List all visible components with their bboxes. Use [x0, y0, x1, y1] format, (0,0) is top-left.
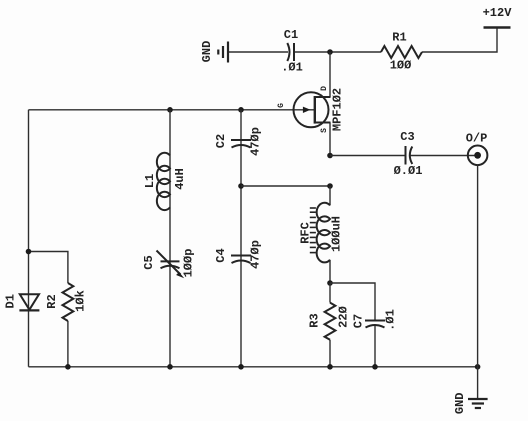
svg-text:C4: C4 — [214, 248, 228, 262]
wire RFC vertical top lead — [329, 186, 331, 205]
svg-text:R1: R1 — [392, 31, 406, 45]
svg-text:.Ø1: .Ø1 — [384, 309, 398, 331]
svg-text:22Ø: 22Ø — [337, 306, 351, 328]
node output ground junction — [475, 364, 481, 370]
svg-text:RFC: RFC — [298, 222, 312, 244]
svg-text:.Ø1: .Ø1 — [281, 61, 303, 75]
svg-text:C7: C7 — [352, 314, 366, 328]
svg-text:Ø.Ø1: Ø.Ø1 — [394, 164, 423, 178]
wire top rail from GND symbol to C1 — [228, 51, 288, 53]
resistor R3 220 — [308, 283, 351, 367]
svg-text:C2: C2 — [214, 134, 228, 148]
node C2/C4 mid junction — [238, 183, 244, 189]
node RFC/R3/C7 junction — [327, 280, 333, 286]
svg-text:R2: R2 — [45, 294, 59, 308]
capacitor C4 470p — [214, 240, 263, 269]
wire bottom rail — [29, 366, 478, 368]
inductor L1 4uH — [143, 153, 187, 210]
O/P output terminal — [466, 132, 488, 166]
wire left vertical — [28, 110, 30, 367]
svg-text:+12V: +12V — [483, 6, 513, 20]
inductor RFC 100uH — [298, 203, 343, 263]
resistor R1 100 — [381, 31, 422, 73]
node L1 top junction — [167, 107, 173, 113]
wire O/P down to ground — [477, 165, 479, 399]
svg-text:D: D — [320, 86, 329, 91]
svg-text:O/P: O/P — [466, 132, 488, 146]
node C5 bottom — [167, 364, 173, 370]
node gate/C2 junction — [238, 107, 244, 113]
svg-text:C1: C1 — [284, 28, 298, 42]
svg-text:C3: C3 — [400, 130, 414, 144]
svg-text:1ØØp: 1ØØp — [182, 249, 196, 278]
capacitor C1 .01 — [281, 28, 303, 75]
node R3 bottom — [327, 364, 333, 370]
svg-text:D1: D1 — [4, 294, 18, 308]
wire source lead — [329, 123, 331, 156]
svg-text:GND: GND — [200, 41, 214, 63]
node C7 bottom — [372, 364, 378, 370]
wire R1 to +12V corner — [422, 28, 497, 52]
capacitor C5 100p variable — [142, 249, 196, 279]
svg-text:1ØØuH: 1ØØuH — [330, 216, 344, 252]
svg-text:R3: R3 — [308, 313, 322, 327]
node D1/R2 split — [26, 249, 32, 255]
capacitor C3 0.01 — [394, 130, 423, 178]
node drain junction — [327, 49, 333, 55]
wire drain lead — [329, 52, 331, 97]
wire gate rail from left vertical to JFET gate — [29, 109, 315, 111]
wire C1 to R1 — [294, 51, 381, 53]
svg-text:L1: L1 — [143, 174, 157, 188]
wire junction to C7 branch — [330, 283, 375, 313]
svg-text:GND: GND — [453, 392, 467, 414]
diode D1 — [4, 294, 40, 310]
wire source rail to C3 — [330, 155, 406, 157]
capacitor C7 .01 — [352, 309, 398, 367]
+12V supply terminal — [483, 6, 513, 28]
svg-text:47Øp: 47Øp — [249, 127, 263, 156]
svg-text:4uH: 4uH — [173, 168, 187, 190]
capacitor C2 470p — [214, 127, 263, 156]
wire L1/C5 branch vertical — [169, 110, 171, 367]
svg-text:C5: C5 — [142, 255, 156, 269]
wire C3 to O/P — [410, 155, 478, 157]
transistor Q1 MPF102 JFET — [277, 86, 345, 133]
wire C2/C4 branch vertical — [240, 110, 242, 367]
svg-text:S: S — [320, 128, 329, 133]
wire RFC bottom lead — [329, 260, 331, 283]
svg-text:1ØØ: 1ØØ — [390, 59, 412, 73]
wire D1/R2 branch — [29, 252, 68, 284]
svg-text:MPF1Ø2: MPF1Ø2 — [331, 88, 345, 131]
svg-text:47Øp: 47Øp — [249, 240, 263, 269]
ground GND (bottom right) — [453, 392, 488, 414]
node source/C3 junction — [327, 153, 333, 159]
node RFC top junction — [327, 183, 333, 189]
svg-text:1Øk: 1Øk — [74, 290, 88, 312]
node C4 bottom — [238, 364, 244, 370]
resistor R2 10k — [45, 283, 88, 367]
ground GND (top left) — [200, 41, 228, 63]
svg-text:G: G — [277, 103, 286, 108]
wire mid rail to RFC — [241, 185, 330, 187]
node R2 bottom — [65, 364, 71, 370]
